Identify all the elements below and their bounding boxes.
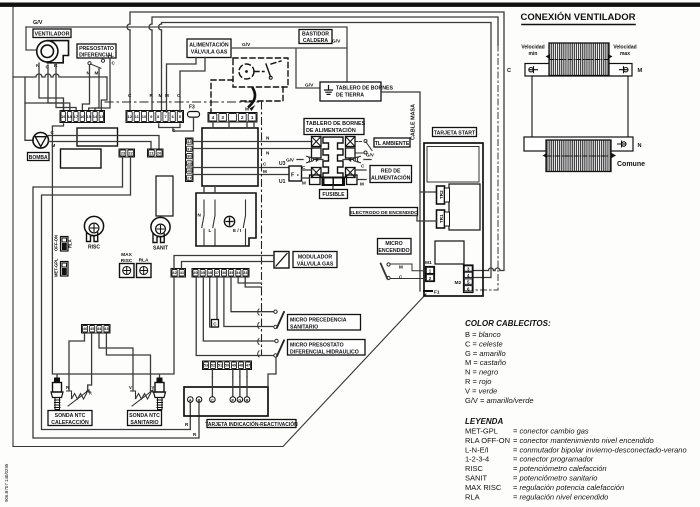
micro precedencia sanitario xyxy=(258,309,361,330)
svg-text:SANIT: SANIT xyxy=(465,474,488,483)
color legend xyxy=(465,319,551,405)
svg-text:N = negro: N = negro xyxy=(465,368,498,377)
svg-text:N: N xyxy=(198,213,202,218)
svg-text:ALIMENTACIÓN: ALIMENTACIÓN xyxy=(189,41,229,49)
svg-text:19: 19 xyxy=(61,114,66,119)
svg-text:COLOR CABLECITOS:: COLOR CABLECITOS: xyxy=(465,319,551,328)
svg-text:F1: F1 xyxy=(434,290,440,296)
svg-text:35: 35 xyxy=(229,271,233,275)
svg-text:BASTIDOR: BASTIDOR xyxy=(302,32,329,38)
svg-text:TR2: TR2 xyxy=(439,190,444,199)
wire W1 top bus xyxy=(130,12,504,271)
svg-text:G/V: G/V xyxy=(33,20,43,26)
svg-text:N: N xyxy=(638,143,642,149)
svg-text:G/V: G/V xyxy=(242,42,251,48)
svg-text:M: M xyxy=(95,71,99,76)
svg-text:M: M xyxy=(399,265,403,270)
pairs 23 22 / 21 20 / 42 41 xyxy=(119,149,186,277)
svg-text:SANITARIO: SANITARIO xyxy=(290,324,318,330)
svg-text:906.B707 140/0295: 906.B707 140/0295 xyxy=(4,463,9,502)
svg-text:FUSIBLE: FUSIBLE xyxy=(322,192,345,198)
fan symbol xyxy=(37,41,69,63)
svg-text:RLA: RLA xyxy=(68,239,73,248)
svg-text:MAX: MAX xyxy=(121,252,132,258)
svg-text:L-N-E/I: L-N-E/I xyxy=(465,445,489,454)
svg-text:MICRO: MICRO xyxy=(385,241,402,247)
wire fan feed xyxy=(26,27,37,50)
svg-text:M: M xyxy=(245,107,249,112)
svg-text:M: M xyxy=(165,93,169,98)
svg-text:53: 53 xyxy=(204,364,208,368)
svg-text:= conector mantenimiento nivel: = conector mantenimiento nivel encendido xyxy=(513,436,654,445)
svg-text:G: G xyxy=(238,398,241,402)
svg-text:2: 2 xyxy=(241,115,244,120)
fan wires down xyxy=(39,63,56,77)
svg-text:VÁLVULA GAS: VÁLVULA GAS xyxy=(297,260,334,267)
svg-text:43: 43 xyxy=(104,327,108,331)
svg-text:C: C xyxy=(302,165,306,170)
svg-text:47: 47 xyxy=(246,364,250,368)
svg-text:N: N xyxy=(266,136,270,141)
svg-text:12: 12 xyxy=(127,114,132,119)
svg-text:Comune: Comune xyxy=(617,161,645,168)
svg-text:max: max xyxy=(620,51,630,57)
potentiometer RISC xyxy=(84,216,103,250)
svg-text:C: C xyxy=(128,93,132,98)
svg-text:30: 30 xyxy=(187,154,191,159)
svg-text:37: 37 xyxy=(215,271,219,275)
svg-text:R: R xyxy=(246,398,249,402)
dash-dot long vertical xyxy=(261,102,263,355)
svg-text:40: 40 xyxy=(193,271,197,275)
svg-text:CALDERA: CALDERA xyxy=(303,38,329,44)
svg-text:VÁLVULA GAS: VÁLVULA GAS xyxy=(191,49,228,56)
pass-through box xyxy=(77,128,118,146)
svg-text:MET-GPL: MET-GPL xyxy=(54,258,59,277)
svg-text:27: 27 xyxy=(187,175,191,180)
strip 40-33 xyxy=(192,269,249,278)
svg-text:V = verde: V = verde xyxy=(465,386,497,395)
MAX RISC / RLA trimmers xyxy=(120,252,152,278)
svg-text:= conector programador: = conector programador xyxy=(513,455,594,464)
svg-text:ENCENDIDO: ENCENDIDO xyxy=(378,248,409,254)
left long wires xyxy=(33,157,199,438)
svg-text:14: 14 xyxy=(93,114,98,119)
svg-text:R: R xyxy=(185,422,189,427)
svg-text:45: 45 xyxy=(90,327,94,331)
svg-text:49: 49 xyxy=(232,364,236,368)
tarjeta start xyxy=(420,128,483,297)
svg-text:= conector cambio gas: = conector cambio gas xyxy=(513,427,589,436)
svg-text:51: 51 xyxy=(218,364,222,368)
G bracket under TS2 xyxy=(159,124,180,128)
svg-text:38: 38 xyxy=(208,271,212,275)
svg-text:C: C xyxy=(211,398,214,402)
svg-text:50: 50 xyxy=(225,364,229,368)
svg-text:RLA: RLA xyxy=(139,258,149,264)
svg-text:MODULADOR: MODULADOR xyxy=(298,254,333,260)
terminal strip TS1 (19..13) xyxy=(60,111,105,123)
svg-text:MICRO PRECEDENCIA: MICRO PRECEDENCIA xyxy=(290,317,347,323)
svg-text:R: R xyxy=(193,432,197,437)
52.4 wire down to sondas bus xyxy=(52,124,174,377)
svg-text:36: 36 xyxy=(222,271,226,275)
svg-text:ELECTRODO DE ENCENDIDO: ELECTRODO DE ENCENDIDO xyxy=(350,210,418,216)
svg-text:ALIMENTACIÓN: ALIMENTACIÓN xyxy=(371,174,411,182)
svg-text:RISC: RISC xyxy=(465,464,484,473)
wire W2 (to M2 pin6, dash-dot lower) xyxy=(152,17,498,112)
svg-text:M = castaño: M = castaño xyxy=(465,358,506,367)
svg-text:G/V: G/V xyxy=(332,39,341,45)
dashed crossing line mid-left xyxy=(105,101,262,103)
svg-text:1: 1 xyxy=(251,115,254,120)
svg-text:= regulación nivel encendido: = regulación nivel encendido xyxy=(513,492,608,501)
dashed bastidor box xyxy=(211,58,288,112)
tall rect xyxy=(156,176,173,216)
svg-text:DE ALIMENTACIÓN: DE ALIMENTACIÓN xyxy=(306,126,356,134)
svg-text:M2: M2 xyxy=(455,280,462,286)
svg-text:RLA OFF-ON: RLA OFF-ON xyxy=(465,436,510,445)
svg-text:N: N xyxy=(266,151,270,156)
svg-text:V: V xyxy=(152,385,155,390)
conexion ventilador panel xyxy=(507,11,645,172)
svg-text:M1: M1 xyxy=(425,260,432,266)
svg-text:L: L xyxy=(209,228,212,233)
svg-text:B = blanco: B = blanco xyxy=(465,330,501,339)
svg-text:BOMBA: BOMBA xyxy=(29,155,48,161)
svg-text:C: C xyxy=(112,61,116,66)
bastidor caldera label xyxy=(299,30,332,44)
svg-text:RED DE: RED DE xyxy=(381,169,401,175)
svg-text:M: M xyxy=(638,68,643,74)
svg-text:C: C xyxy=(263,162,267,167)
svg-text:min: min xyxy=(529,51,538,57)
potentiometer SANIT xyxy=(151,217,170,251)
svg-text:LEYENDA: LEYENDA xyxy=(465,417,503,426)
svg-text:Velocidad: Velocidad xyxy=(521,45,544,51)
svg-text:TR1: TR1 xyxy=(439,214,444,223)
board-to-right wires xyxy=(193,142,313,175)
svg-text:V: V xyxy=(129,385,132,390)
svg-text:R: R xyxy=(150,93,154,98)
svg-text:G = amarillo: G = amarillo xyxy=(465,349,506,358)
svg-text:C: C xyxy=(507,68,511,74)
empty box xyxy=(61,149,102,168)
svg-text:1-2-3-4: 1-2-3-4 xyxy=(465,455,489,464)
svg-text:3: 3 xyxy=(221,115,224,120)
wires strip40 to micros xyxy=(196,277,274,356)
terminal column 32..27 xyxy=(186,138,194,182)
svg-text:CABLE MASA: CABLE MASA xyxy=(411,104,417,140)
svg-text:M: M xyxy=(302,181,306,186)
conmutador block xyxy=(196,193,256,246)
svg-text:15: 15 xyxy=(86,114,91,119)
svg-text:A: A xyxy=(189,398,192,402)
svg-text:SANITARIO: SANITARIO xyxy=(130,420,158,426)
sondas xyxy=(48,333,166,426)
presostato wires xyxy=(90,58,111,112)
svg-text:G/V: G/V xyxy=(286,158,295,163)
svg-text:B: B xyxy=(198,398,201,402)
svg-text:48: 48 xyxy=(239,364,243,368)
svg-text:20: 20 xyxy=(157,150,161,155)
svg-text:RLA: RLA xyxy=(465,492,480,501)
terminal strip TS2 (12..5) xyxy=(126,111,184,123)
svg-text:R: R xyxy=(66,385,69,390)
wires bus to strip1 xyxy=(39,77,99,112)
spark lever xyxy=(266,64,271,77)
svg-text:= conmutador bipolar invierno-: = conmutador bipolar invierno-desconecta… xyxy=(513,445,687,454)
svg-text:4: 4 xyxy=(212,115,215,120)
spark thick arrow xyxy=(249,89,255,107)
bomba xyxy=(28,133,50,161)
alimentacion valvula gas label xyxy=(187,39,231,58)
svg-text:TARJETA START: TARJETA START xyxy=(434,130,476,136)
svg-text:G/V = amarillo/verde: G/V = amarillo/verde xyxy=(465,396,534,405)
frame top bar xyxy=(0,3,700,7)
svg-text:M: M xyxy=(360,182,364,187)
svg-text:MET-GPL: MET-GPL xyxy=(465,427,498,436)
svg-text:PRESOSTATO: PRESOSTATO xyxy=(79,46,114,52)
cable masa xyxy=(381,92,420,291)
svg-text:SONDA NTC: SONDA NTC xyxy=(129,413,160,419)
connector 4-3-2-1 xyxy=(208,113,257,123)
svg-text:CALEFACCIÓN: CALEFACCIÓN xyxy=(51,418,89,426)
micro encendido xyxy=(378,239,412,255)
svg-text:TABLERO DE BORNES: TABLERO DE BORNES xyxy=(306,121,366,127)
svg-text:17: 17 xyxy=(74,114,79,119)
svg-text:M: M xyxy=(263,169,267,174)
svg-text:MAX RISC: MAX RISC xyxy=(465,483,502,492)
svg-text:TARJETA INDICACIÓN-REACTIVACIÓ: TARJETA INDICACIÓN-REACTIVACIÓN xyxy=(205,420,298,428)
svg-text:39: 39 xyxy=(201,271,205,275)
strip 46-43 xyxy=(82,325,111,334)
ventilador label xyxy=(33,29,71,38)
wires valve box down to TS2 xyxy=(167,58,206,113)
left bus wire xyxy=(13,74,107,77)
presostato switch xyxy=(88,55,112,68)
svg-text:OFF-ON: OFF-ON xyxy=(54,235,59,251)
svg-text:G/V: G/V xyxy=(305,83,314,89)
svg-text:VENTILADOR: VENTILADOR xyxy=(34,32,69,38)
svg-text:= potenciómetro calefacción: = potenciómetro calefacción xyxy=(513,464,607,473)
wire W3 (to M2 pin4) xyxy=(162,23,492,278)
wire G/V fan to earth board xyxy=(26,27,347,82)
micro presostato diferencial xyxy=(258,339,365,358)
svg-text:18: 18 xyxy=(67,114,72,119)
svg-text:13: 13 xyxy=(99,114,104,119)
presostato diferencial label xyxy=(77,44,116,58)
svg-text:52: 52 xyxy=(211,364,215,368)
svg-text:R = rojo: R = rojo xyxy=(465,377,491,386)
modulador xyxy=(274,252,289,269)
svg-text:SANIT: SANIT xyxy=(153,246,168,252)
svg-text:P: P xyxy=(232,398,235,402)
svg-text:= potenciómetro sanitario: = potenciómetro sanitario xyxy=(513,474,597,483)
connectors OFF-ON / MET-GPL xyxy=(54,235,73,277)
svg-text:= regulación potencia calefacc: = regulación potencia calefacción xyxy=(513,483,624,492)
svg-text:C = celeste: C = celeste xyxy=(465,339,503,348)
tablero de bornes de alimentacion xyxy=(279,119,412,199)
svg-text:33: 33 xyxy=(243,271,247,275)
svg-text:F3: F3 xyxy=(189,105,195,111)
svg-text:RISC: RISC xyxy=(88,245,100,251)
tarjeta indicacion xyxy=(184,358,298,429)
svg-text:M: M xyxy=(159,93,163,98)
frame left/bottom/diagonal border xyxy=(13,7,426,447)
leyenda xyxy=(465,417,687,501)
strip 53-47 xyxy=(203,361,252,370)
main board box xyxy=(202,128,258,186)
svg-text:U1: U1 xyxy=(279,179,286,185)
svg-text:10: 10 xyxy=(142,114,147,119)
svg-text:DIFERENCIAL HIDRAULICO: DIFERENCIAL HIDRAULICO xyxy=(290,349,359,355)
electrodo xyxy=(350,208,418,216)
svg-text:TABLERO DE BORNES: TABLERO DE BORNES xyxy=(336,86,394,92)
G/V wire valve-to-earth vertical xyxy=(231,48,347,88)
svg-text:E / I: E / I xyxy=(233,228,241,233)
svg-text:SONDA NTC: SONDA NTC xyxy=(55,413,86,419)
svg-text:TL AMBIENTE: TL AMBIENTE xyxy=(375,141,410,147)
svg-text:16: 16 xyxy=(80,114,85,119)
svg-text:Velocidad: Velocidad xyxy=(613,45,636,51)
svg-text:U3: U3 xyxy=(279,161,286,167)
svg-text:C: C xyxy=(361,164,365,169)
svg-text:CONEXIÓN VENTILADOR: CONEXIÓN VENTILADOR xyxy=(520,11,635,23)
svg-text:DE TIERRA: DE TIERRA xyxy=(336,93,364,99)
pump wires xyxy=(49,136,160,150)
svg-text:MICRO PRESOSTATO: MICRO PRESOSTATO xyxy=(290,342,344,348)
svg-text:46: 46 xyxy=(83,327,87,331)
tierra board xyxy=(320,82,394,101)
